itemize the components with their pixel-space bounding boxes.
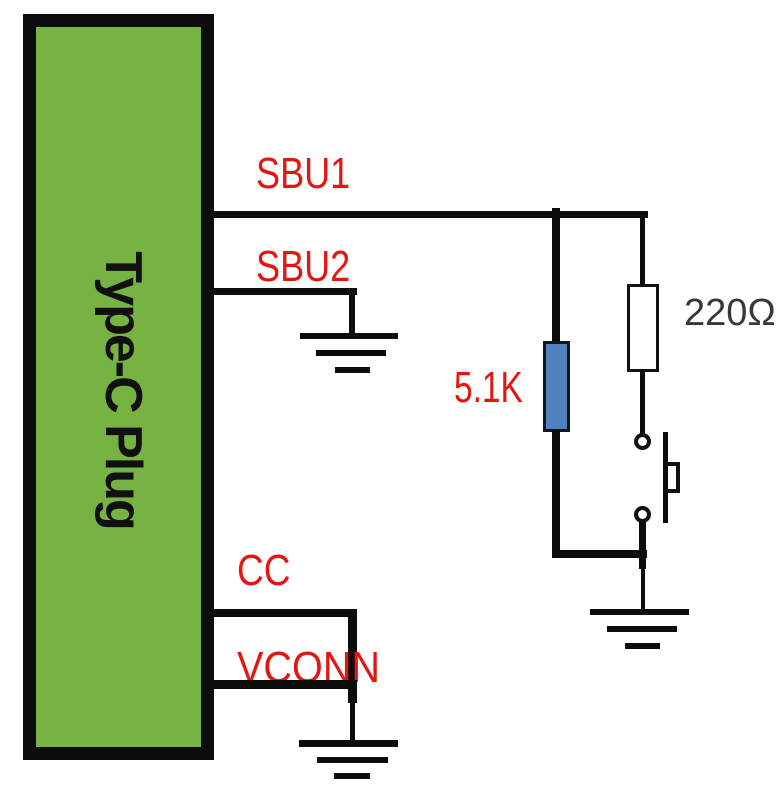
wire SBU1 horizontal — [212, 211, 648, 218]
connector J1 Type-C Plug body — [23, 14, 214, 760]
resistor R2 220 ohm — [627, 284, 659, 372]
switch SW1 actuator bump — [666, 462, 680, 493]
net label SBU2 — [256, 245, 350, 289]
wire junction to ground (thin) — [641, 569, 645, 612]
net label CC — [237, 549, 290, 593]
wire 220 branch vertical (thin) — [640, 215, 645, 286]
wire VCONN ground drop (thin) — [350, 703, 355, 741]
net label SBU1 — [256, 152, 350, 196]
wire R2 to switch — [640, 370, 645, 434]
wire SBU2 horizontal — [212, 288, 357, 295]
label 220 ohm — [684, 294, 776, 332]
wire VCONN horizontal — [212, 680, 357, 689]
wire switch to junction (thick) — [639, 522, 646, 569]
ground (SBU2) — [300, 333, 398, 339]
switch SW1 actuator bar — [663, 432, 668, 523]
resistor R1 5.1K — [543, 341, 570, 432]
net label VCONN — [237, 646, 380, 690]
wire CC horizontal — [212, 609, 357, 617]
wire CC to VCONN vertical — [348, 609, 357, 703]
wire bottom horizontal (R1 to switch node) — [552, 550, 647, 558]
label 5.1K — [454, 366, 523, 410]
wire 5.1K branch upper vertical — [552, 208, 560, 342]
ground (switch node) — [590, 609, 689, 615]
switch SW1 top contact circle — [634, 433, 651, 450]
switch SW1 bottom contact circle — [634, 506, 651, 523]
connector J1 label "Type-C Plug" — [122, 389, 124, 391]
wire SBU2 ground drop — [349, 288, 355, 336]
ground (CC/VCONN) — [299, 740, 398, 747]
wire 5.1K branch lower vertical — [552, 430, 560, 558]
